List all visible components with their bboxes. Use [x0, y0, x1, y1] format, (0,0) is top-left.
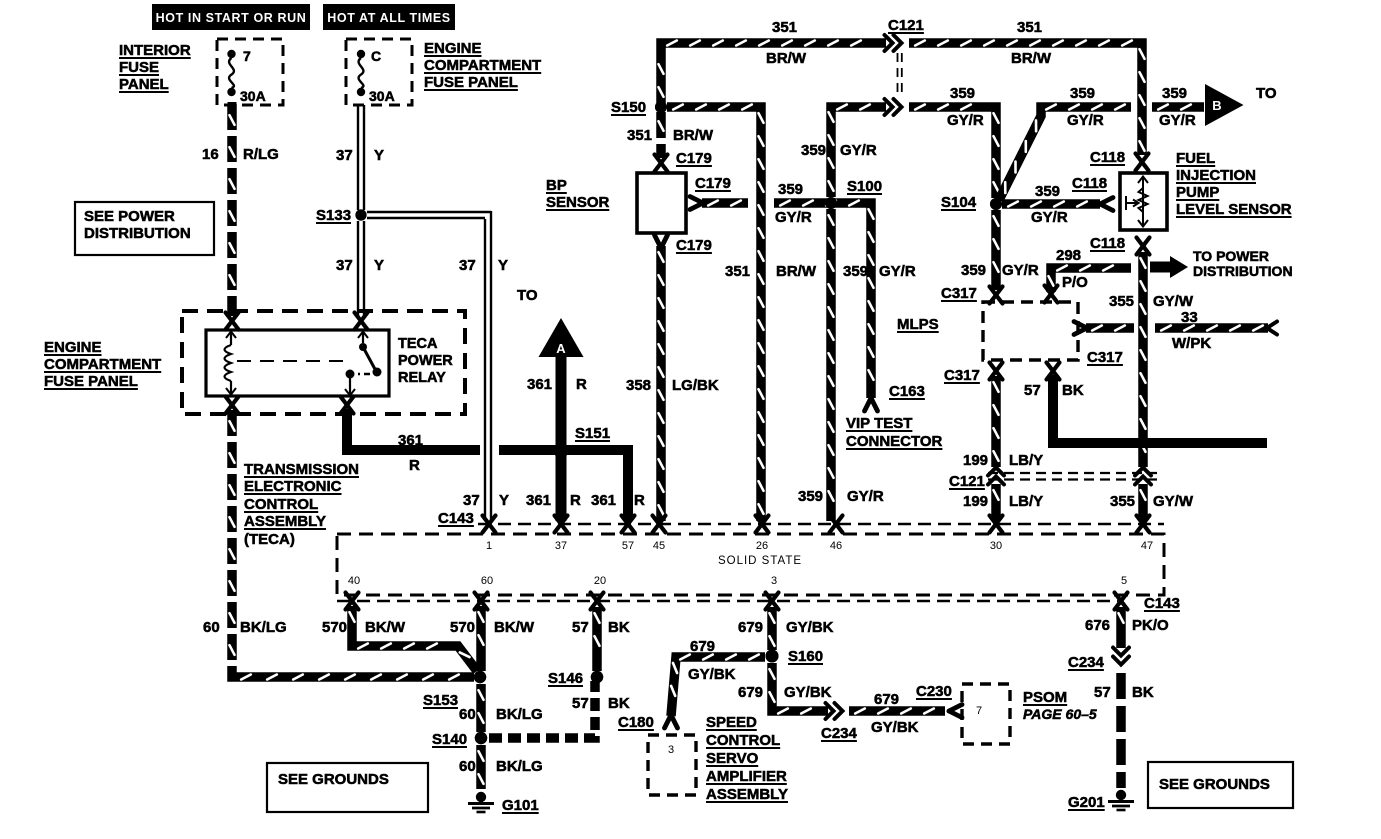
svg-text:5: 5 [1121, 575, 1127, 587]
svg-text:SEE GROUNDS: SEE GROUNDS [278, 771, 389, 788]
label MLPS [897, 316, 939, 333]
connector C317 fork bottom-right [1047, 363, 1060, 380]
label VIP TEST [846, 415, 912, 432]
label S160 [788, 648, 823, 665]
svg-text:S146: S146 [548, 670, 583, 687]
connector C143 top fork x659 [653, 516, 666, 533]
svg-text:361: 361 [591, 492, 616, 509]
svg-text:SENSOR: SENSOR [546, 194, 610, 211]
svg-text:RELAY: RELAY [398, 370, 446, 386]
svg-text:Y: Y [374, 147, 384, 164]
svg-text:TRANSMISSION: TRANSMISSION [244, 461, 359, 478]
svg-text:30A: 30A [240, 88, 266, 104]
wire 351 BR/W top left [659, 41, 887, 104]
splice S100 [825, 197, 837, 209]
label TECA assembly line2 [244, 478, 342, 495]
wire 57 BK C143 pin20 to S146 [595, 607, 600, 671]
svg-text:46: 46 [830, 540, 842, 552]
svg-text:57: 57 [572, 695, 589, 712]
label FUEL [1176, 150, 1215, 167]
label PSOM [1023, 689, 1067, 706]
label C118 top [1090, 149, 1125, 166]
wire 33 W/PK left stub [1086, 326, 1134, 331]
svg-text:LG/BK: LG/BK [672, 377, 719, 394]
svg-text:37: 37 [336, 257, 353, 274]
svg-text:VIP TEST: VIP TEST [846, 415, 912, 432]
svg-text:Y: Y [374, 257, 384, 274]
svg-text:679: 679 [690, 638, 715, 655]
splice S133 [355, 209, 366, 220]
svg-text:R: R [409, 457, 420, 474]
connector C143 bottom fork x352 [346, 593, 359, 610]
connector C121 chevron pin30 [988, 468, 1004, 485]
label G101 [502, 797, 539, 814]
wire dashed S140 to S146 branch [489, 681, 595, 738]
wire 60 BK/LG S140 to G101 [479, 745, 484, 789]
svg-text:FUEL: FUEL [1176, 150, 1215, 167]
wire 57 BK MLPS heavy [1053, 375, 1267, 443]
wire 37 Y double-line S133 to relay [358, 221, 364, 317]
svg-text:37: 37 [555, 540, 567, 552]
svg-text:BK/W: BK/W [365, 619, 406, 636]
splice S160 [766, 650, 779, 663]
svg-text:GY/BK: GY/BK [871, 719, 919, 736]
svg-text:BP: BP [546, 177, 567, 194]
wire 361 R arrow-A vertical [556, 357, 567, 521]
svg-text:G201: G201 [1068, 794, 1105, 811]
svg-text:BR/W: BR/W [766, 50, 807, 67]
label G201 [1068, 794, 1105, 811]
wire 355 GY/W sensor down to C121 [1141, 252, 1146, 467]
svg-text:W/PK: W/PK [1172, 335, 1211, 352]
note box SEE GROUNDS right [1148, 762, 1293, 808]
svg-text:ASSEMBLY: ASSEMBLY [244, 513, 326, 530]
connector C180 fork [665, 715, 678, 728]
fuse C element [357, 50, 365, 96]
svg-text:C121: C121 [949, 473, 985, 490]
svg-text:C118: C118 [1090, 235, 1125, 252]
svg-text:GY/R: GY/R [775, 209, 812, 226]
wire 676 PK/O C143 pin5 to C234 [1119, 607, 1124, 648]
svg-text:GY/R: GY/R [1002, 262, 1039, 279]
connector C118 top fork [1136, 154, 1149, 171]
relay coil-switch dashed link [237, 360, 352, 362]
svg-text:45: 45 [653, 540, 665, 552]
svg-text:DISTRIBUTION: DISTRIBUTION [1193, 263, 1293, 279]
label C317 top [941, 285, 977, 302]
wire 361 R from relay [347, 409, 480, 450]
svg-text:359: 359 [778, 181, 803, 198]
label C143 left [438, 510, 474, 527]
connector C121 dashed boundary lower [988, 473, 1157, 480]
wire 60 BK/LG relay vertical [230, 410, 235, 666]
svg-text:C234: C234 [1068, 654, 1105, 671]
svg-text:BK: BK [608, 695, 630, 712]
svg-text:C230: C230 [916, 683, 952, 700]
svg-text:676: 676 [1085, 617, 1110, 634]
svg-text:GY/W: GY/W [1153, 493, 1194, 510]
label C230 [916, 683, 952, 700]
wire 679 GY/BK C143 pin3 to S160 [770, 607, 775, 650]
connector C234 chevron right [1113, 648, 1129, 665]
wire 359 GY/R C121 to S104 [909, 105, 999, 199]
connector C143 bottom fork x481 [475, 593, 488, 610]
svg-text:358: 358 [626, 377, 651, 394]
svg-text:B: B [1212, 98, 1221, 113]
svg-text:PSOM: PSOM [1023, 689, 1067, 706]
svg-text:30: 30 [990, 540, 1002, 552]
svg-text:LEVEL SENSOR: LEVEL SENSOR [1176, 201, 1292, 218]
connector C143 bottom dashed line [337, 600, 1118, 602]
splice S104 [990, 198, 1002, 210]
wire C179 right stub [702, 201, 748, 206]
svg-text:37: 37 [463, 492, 480, 509]
label C121 top [888, 17, 924, 34]
svg-text:G101: G101 [502, 797, 539, 814]
wire 359 GY/R S104 to MLPS [994, 210, 999, 290]
svg-text:359: 359 [798, 488, 823, 505]
svg-text:C143: C143 [1144, 595, 1180, 612]
label TECA assembly line4 [244, 513, 326, 530]
svg-text:SERVO: SERVO [706, 750, 759, 767]
MLPS box [983, 302, 1078, 360]
connector C121 chevron top [885, 35, 902, 51]
label ENGINE COMPARTMENT FUSE PANEL relay line3 [44, 373, 138, 390]
splice S146 [591, 671, 603, 683]
svg-text:60: 60 [459, 758, 476, 775]
svg-text:TO: TO [517, 287, 538, 304]
label C180 [618, 714, 654, 731]
note box SEE GROUNDS left [267, 763, 428, 812]
fuse F7 interior panel box [217, 39, 283, 105]
svg-text:BR/W: BR/W [673, 127, 714, 144]
svg-text:C121: C121 [888, 17, 924, 34]
wire 60 BK/LG horizontal to S153 [232, 666, 474, 680]
svg-text:GY/W: GY/W [1153, 293, 1194, 310]
svg-text:C163: C163 [889, 383, 925, 400]
svg-text:361: 361 [398, 432, 423, 449]
svg-text:3: 3 [771, 575, 777, 587]
wire 359 GY/R BP area to S100 and VIP branch [774, 201, 874, 399]
relay pin fork top-left [226, 313, 239, 330]
wire 679 GY/BK S160 down-right [770, 663, 829, 714]
relay pin fork bottom-left [226, 397, 239, 414]
svg-text:A: A [556, 341, 566, 356]
svg-text:LB/Y: LB/Y [1009, 452, 1043, 469]
svg-text:26: 26 [756, 540, 768, 552]
svg-text:ENGINE: ENGINE [44, 339, 102, 356]
fuse F7 element [227, 50, 235, 96]
svg-text:359: 359 [961, 262, 986, 279]
svg-text:BR/W: BR/W [1011, 50, 1052, 67]
connector C143 top fork x628 [622, 516, 635, 533]
splice dots overlay [355, 101, 1002, 744]
connector C230 fork [949, 705, 962, 718]
label CONNECTOR [846, 433, 943, 450]
BP sensor box [637, 173, 686, 233]
svg-text:570: 570 [322, 619, 347, 636]
svg-text:C180: C180 [618, 714, 654, 731]
label C317 bottom [944, 367, 980, 384]
label INJECTION [1176, 167, 1256, 184]
svg-text:GY/R: GY/R [847, 488, 884, 505]
svg-text:BR/W: BR/W [776, 263, 817, 280]
arrow TO POWER DISTRIBUTION [1150, 256, 1188, 278]
level sensor internals [1126, 177, 1148, 227]
relay pin fork top-right [355, 313, 368, 330]
splice S151 [554, 444, 568, 458]
wire 351 BR/W S150 to BP sensor [659, 112, 664, 158]
label S100 [847, 178, 882, 195]
svg-text:57: 57 [572, 619, 589, 636]
connector C118 left fork [1100, 198, 1113, 211]
svg-text:BK: BK [608, 619, 630, 636]
svg-text:S151: S151 [575, 425, 610, 442]
ground G101 [468, 792, 494, 812]
splice S140 [475, 732, 487, 744]
svg-text:BK: BK [1062, 382, 1084, 399]
connector C179 bottom fork [655, 235, 668, 248]
svg-text:FUSE PANEL: FUSE PANEL [44, 373, 138, 390]
svg-text:GY/R: GY/R [947, 112, 984, 129]
connector C143 top fork x561 [555, 516, 568, 533]
header HOT AT ALL TIMES [323, 4, 455, 30]
connector C143 top fork x1143 [1137, 516, 1150, 533]
arrow B to other page [1205, 84, 1244, 126]
wire 199 LB/Y MLPS to C121 [994, 376, 999, 467]
label PUMP [1176, 184, 1219, 201]
label C234 right [1068, 654, 1105, 671]
connector C163 fork [865, 398, 878, 411]
svg-text:GY/R: GY/R [840, 142, 877, 159]
label C118 left [1072, 175, 1107, 192]
svg-text:33: 33 [1181, 309, 1198, 326]
label CONTROL [706, 732, 780, 749]
wire 33 end fork [1267, 322, 1277, 335]
label ENGINE COMPARTMENT FUSE PANEL line3 [424, 74, 518, 91]
svg-text:BK/LG: BK/LG [240, 619, 287, 636]
wire 199 LB/Y C121 to C143 pin 30 [994, 484, 999, 521]
svg-text:351: 351 [772, 19, 797, 36]
label INTERIOR FUSE PANEL line1 [119, 42, 191, 59]
label S150 [611, 99, 646, 116]
connector C317 right fork [1074, 322, 1087, 335]
label SERVO [706, 750, 759, 767]
svg-text:GY/BK: GY/BK [784, 684, 832, 701]
svg-text:HOT IN START OR RUN: HOT IN START OR RUN [156, 11, 307, 25]
label C179 bottom [676, 237, 712, 254]
wire 16 R/LG vertical [230, 104, 235, 316]
svg-text:BK: BK [1132, 684, 1154, 701]
svg-text:COMPARTMENT: COMPARTMENT [424, 57, 541, 74]
stub below interior fuse [228, 102, 237, 113]
label ENGINE COMPARTMENT FUSE PANEL relay line1 [44, 339, 102, 356]
label ASSEMBLY [706, 786, 788, 803]
svg-text:INTERIOR: INTERIOR [119, 42, 191, 59]
svg-text:359: 359 [1070, 85, 1095, 102]
relay coil [225, 331, 237, 395]
svg-text:C317: C317 [944, 367, 980, 384]
svg-text:1: 1 [486, 540, 492, 552]
svg-text:GY/BK: GY/BK [688, 666, 736, 683]
label INTERIOR FUSE PANEL line3 [119, 76, 169, 93]
connector C234 chevron [826, 703, 843, 719]
splice S150 [655, 101, 667, 113]
svg-text:679: 679 [738, 619, 763, 636]
wire 60 BK/LG S153 to S140 [479, 684, 484, 732]
svg-text:SEE GROUNDS: SEE GROUNDS [1159, 776, 1270, 793]
svg-text:TO: TO [1256, 85, 1277, 102]
svg-text:Y: Y [499, 492, 509, 509]
svg-text:3: 3 [668, 744, 674, 756]
svg-text:47: 47 [1141, 540, 1153, 552]
svg-text:FUSE PANEL: FUSE PANEL [424, 74, 518, 91]
connector C143 top dashed line [478, 523, 1164, 525]
connector C143 bottom fork x597 [591, 593, 604, 610]
svg-text:DISTRIBUTION: DISTRIBUTION [84, 225, 191, 242]
connector C118 bottom fork [1137, 238, 1150, 255]
label INTERIOR FUSE PANEL line2 [119, 59, 159, 76]
svg-text:CONTROL: CONTROL [706, 732, 780, 749]
svg-text:PAGE 60–5: PAGE 60–5 [1023, 706, 1097, 722]
wire 359 GY/R S100 down to C143 pin 46 [829, 209, 834, 521]
connector C143 top fork x836 [830, 516, 843, 533]
wire 679 GY/BK S160 to C180 [671, 655, 765, 717]
connector C121 chevron pin47 [1135, 468, 1151, 485]
svg-text:C118: C118 [1090, 149, 1125, 166]
wire 351 BR/W S150 to C143 pin 26 [667, 105, 764, 522]
wire 359 GY/R S104 to C118 [1002, 202, 1100, 207]
svg-text:C118: C118 [1072, 175, 1107, 192]
svg-text:359: 359 [950, 85, 975, 102]
label C118 bottom [1090, 235, 1125, 252]
svg-text:R: R [634, 492, 645, 509]
label C143 right [1144, 595, 1180, 612]
svg-text:P/O: P/O [1062, 274, 1088, 291]
svg-text:BK/W: BK/W [494, 619, 535, 636]
wire 57 BK C234 to G201 [1116, 673, 1126, 788]
svg-text:S150: S150 [611, 99, 646, 116]
label ENGINE COMPARTMENT FUSE PANEL line2 [424, 57, 541, 74]
svg-text:570: 570 [450, 619, 475, 636]
label S151 [575, 425, 610, 442]
svg-text:CONTROL: CONTROL [244, 496, 318, 513]
svg-text:679: 679 [738, 684, 763, 701]
svg-text:PUMP: PUMP [1176, 184, 1219, 201]
note box SEE POWER DISTRIBUTION [75, 202, 214, 255]
wire 37 Y double-line fuse to S133 [358, 105, 364, 210]
wire 359 GY/R right branch to S104 [999, 105, 1131, 201]
svg-text:HOT AT ALL TIMES: HOT AT ALL TIMES [327, 11, 450, 25]
label S140 [432, 731, 467, 748]
wire 298 P/O [1049, 266, 1132, 293]
svg-text:GY/R: GY/R [1159, 112, 1196, 129]
svg-text:359: 359 [1162, 85, 1187, 102]
relay inner box [206, 330, 389, 396]
label TECA assembly line3 [244, 496, 318, 513]
label S153 [423, 692, 458, 709]
label SENSOR [546, 194, 610, 211]
svg-text:Y: Y [498, 257, 508, 274]
svg-text:361: 361 [526, 492, 551, 509]
svg-text:60: 60 [481, 575, 493, 587]
svg-text:PANEL: PANEL [119, 76, 169, 93]
svg-text:POWER: POWER [398, 353, 453, 369]
connector C143 top fork x762 [756, 516, 769, 533]
label C317 right [1087, 349, 1123, 366]
svg-text:199: 199 [963, 452, 988, 469]
wire 37 Y double-line S133 right to C143 pin 1 [367, 211, 491, 520]
svg-text:S100: S100 [847, 178, 882, 195]
svg-text:37: 37 [336, 147, 353, 164]
relay pin fork bottom-right [341, 397, 354, 414]
relay switch [345, 331, 382, 396]
svg-text:C179: C179 [676, 150, 712, 167]
wire 355 GY/W C121 to C143 pin 47 [1141, 484, 1146, 521]
svg-text:S160: S160 [788, 648, 823, 665]
svg-text:361: 361 [527, 376, 552, 393]
svg-text:C234: C234 [821, 725, 858, 742]
svg-text:359: 359 [1035, 183, 1060, 200]
svg-text:R: R [576, 376, 587, 393]
label ENGINE COMPARTMENT FUSE PANEL line1 [424, 40, 482, 57]
svg-text:BK/LG: BK/LG [496, 706, 543, 723]
svg-text:BK/LG: BK/LG [496, 758, 543, 775]
svg-text:7: 7 [243, 48, 251, 64]
PSOM connector box [962, 684, 1010, 744]
svg-text:FUSE: FUSE [119, 59, 159, 76]
wire 359 GY/R arrow B stub [1152, 105, 1204, 110]
label C121 lower [949, 473, 985, 490]
label C234 left [821, 725, 858, 742]
label S104 [941, 194, 977, 211]
label C179 right [695, 175, 731, 192]
connector C179 right fork [690, 197, 703, 210]
svg-text:GY/R: GY/R [1031, 209, 1068, 226]
svg-text:(TECA): (TECA) [244, 531, 295, 548]
label LEVEL SENSOR [1176, 201, 1292, 218]
label C179 top [676, 150, 712, 167]
wire 570 BK/W C143 pin40 to S153 [350, 606, 478, 671]
arrow A to other page [539, 318, 584, 357]
svg-text:355: 355 [1110, 493, 1135, 510]
TECA solid state module box [337, 534, 1164, 595]
svg-text:INJECTION: INJECTION [1176, 167, 1256, 184]
connector C143 top fork x996 [990, 516, 1003, 533]
fuel pump level sensor box [1120, 173, 1167, 230]
svg-text:199: 199 [963, 493, 988, 510]
svg-text:MLPS: MLPS [897, 316, 939, 333]
svg-text:20: 20 [594, 575, 606, 587]
svg-text:ELECTRONIC: ELECTRONIC [244, 478, 342, 495]
svg-text:30A: 30A [369, 88, 395, 104]
svg-text:40: 40 [348, 575, 360, 587]
svg-text:CONNECTOR: CONNECTOR [846, 433, 943, 450]
connector C143 top fork x489 [483, 516, 496, 533]
svg-text:351: 351 [627, 127, 652, 144]
svg-text:S104: S104 [941, 194, 977, 211]
connector C121 dashed boundary top [898, 53, 902, 96]
label AMPLIFIER [706, 768, 787, 785]
svg-text:SOLID STATE: SOLID STATE [718, 555, 802, 567]
svg-text:TO POWER: TO POWER [1193, 248, 1269, 264]
connector C143 bottom fork x1121 [1115, 593, 1128, 610]
svg-text:298: 298 [1056, 247, 1081, 264]
svg-text:60: 60 [203, 619, 220, 636]
svg-text:GY/R: GY/R [879, 263, 916, 280]
svg-text:57: 57 [1094, 684, 1111, 701]
svg-text:37: 37 [459, 257, 476, 274]
